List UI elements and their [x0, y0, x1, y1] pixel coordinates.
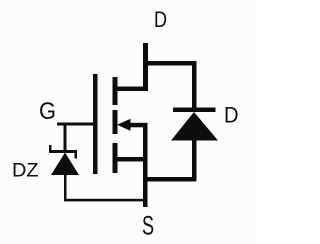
- zener DZ cathode bar: [49, 150, 77, 153]
- wire drain top branch to diode: [143, 61, 196, 66]
- wire zener bottom lead: [64, 175, 67, 201]
- wire diode anode lead: [192, 140, 197, 181]
- wire source vertical: [143, 123, 148, 207]
- diode D1 cathode bar: [173, 108, 216, 113]
- wire body lead horizontal: [129, 123, 148, 128]
- zener DZ triangle: [51, 153, 79, 176]
- wire drain vertical: [143, 43, 148, 91]
- mosfet Q1 channel segment top: [113, 77, 118, 105]
- wire zener top lead: [64, 125, 67, 152]
- mosfet Q1 drain lead: [115, 87, 148, 92]
- mosfet Q1 channel segment middle: [113, 110, 118, 134]
- mosfet Q1 body arrow: [117, 119, 131, 131]
- diode D1 triangle: [171, 112, 218, 141]
- svg-text:DZ: DZ: [12, 160, 39, 182]
- zener DZ left hook: [49, 145, 52, 150]
- svg-text:S: S: [142, 211, 154, 241]
- zener DZ right hook: [75, 153, 78, 159]
- mosfet Q1 source lead: [115, 157, 147, 162]
- svg-text:G: G: [39, 98, 56, 125]
- mosfet Q1 channel segment bottom: [113, 143, 118, 173]
- wire bottom horizontal: [64, 199, 145, 202]
- wire diode cathode lead: [192, 61, 197, 109]
- wire gate lead: [57, 123, 97, 126]
- svg-text:D: D: [224, 103, 239, 128]
- mosfet Q1 gate bar: [93, 74, 98, 174]
- wire bottom right branch: [143, 177, 196, 182]
- svg-text:D: D: [154, 7, 167, 32]
